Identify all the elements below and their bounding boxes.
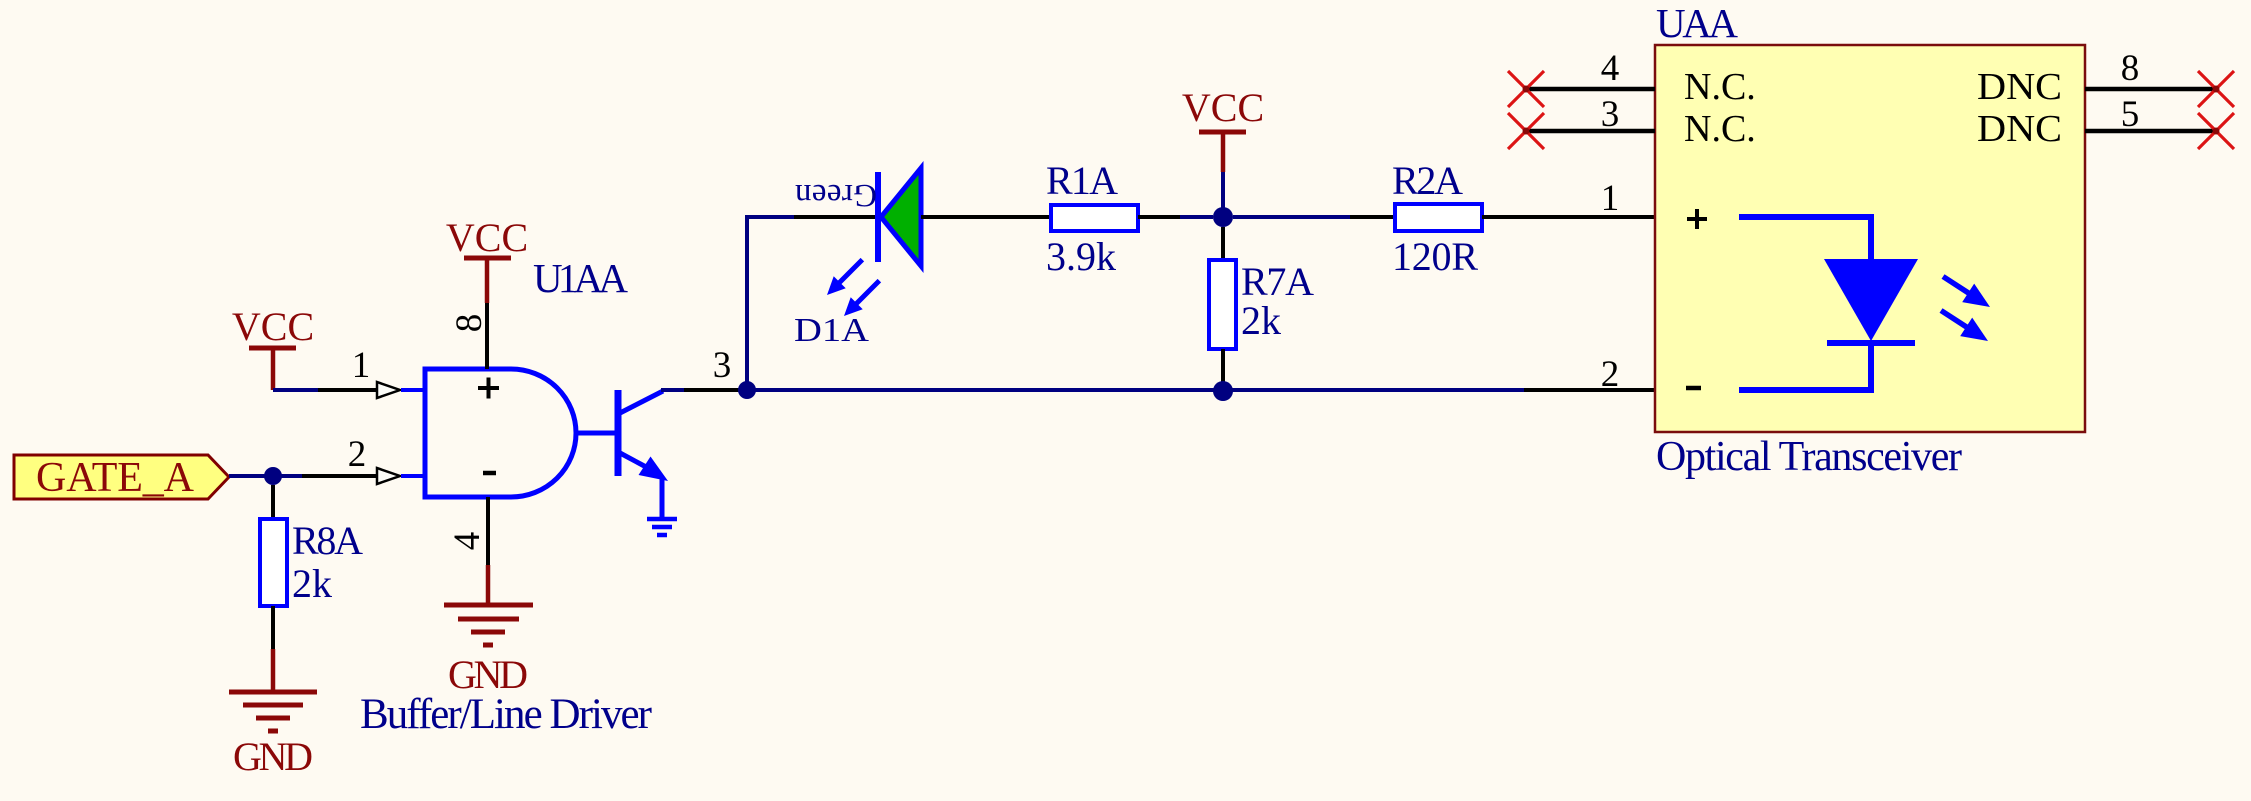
svg-text:4: 4 [447,532,488,551]
svg-text:1: 1 [1601,178,1620,219]
svg-text:2k: 2k [1241,298,1281,343]
svg-text:3.9k: 3.9k [1046,234,1116,279]
svg-text:Green: Green [795,177,877,213]
svg-text:N.C.: N.C. [1684,66,1756,108]
svg-text:GND: GND [233,734,313,779]
svg-text:1: 1 [352,345,371,386]
svg-text:4: 4 [1601,48,1620,89]
svg-text:VCC: VCC [1182,85,1264,130]
svg-text:DNC: DNC [1977,66,2062,108]
svg-text:R1A: R1A [1046,158,1118,203]
svg-text:R2A: R2A [1392,158,1463,203]
svg-text:8: 8 [2121,48,2140,89]
svg-text:120R: 120R [1392,234,1478,279]
svg-text:R8A: R8A [292,518,363,563]
svg-text:Buffer/Line Driver: Buffer/Line Driver [360,691,652,738]
svg-text:5: 5 [2121,94,2140,135]
svg-text:2: 2 [1601,354,1620,395]
svg-text:N.C.: N.C. [1684,108,1756,150]
svg-text:D1A: D1A [794,312,870,349]
svg-text:GATE_A: GATE_A [36,455,195,501]
svg-text:2: 2 [348,434,367,475]
svg-text:3: 3 [713,345,732,386]
svg-text:VCC: VCC [232,304,314,349]
svg-text:3: 3 [1601,94,1620,135]
svg-text:U1AA: U1AA [533,255,628,301]
svg-text:8: 8 [449,314,490,333]
svg-text:Optical Transceiver: Optical Transceiver [1656,434,1962,480]
svg-text:UAA: UAA [1656,0,1738,46]
svg-text:VCC: VCC [446,215,528,260]
svg-text:2k: 2k [292,561,332,606]
svg-text:DNC: DNC [1977,108,2062,150]
